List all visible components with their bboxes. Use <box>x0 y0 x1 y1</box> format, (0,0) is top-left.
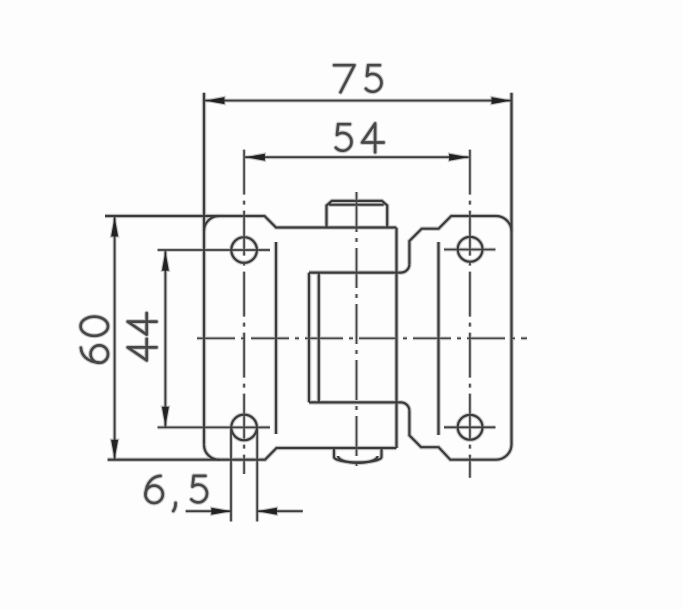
soft halo underlay passes <box>105 93 512 463</box>
dark core passes <box>105 93 512 463</box>
